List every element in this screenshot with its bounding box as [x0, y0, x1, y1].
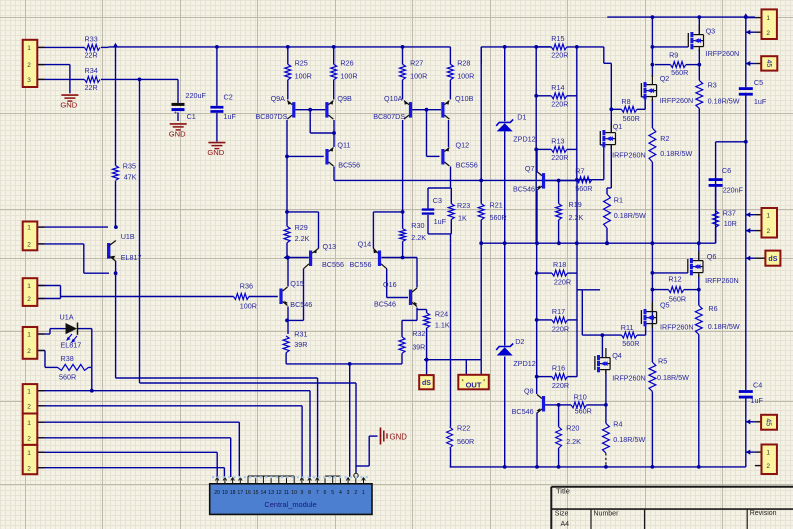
svg-text:R30: R30	[411, 221, 424, 230]
svg-text:Q14: Q14	[358, 240, 372, 249]
svg-text:IRFP260N: IRFP260N	[706, 49, 740, 58]
svg-text:ZPD12: ZPD12	[513, 359, 535, 368]
svg-text:Title: Title	[556, 487, 570, 496]
svg-text:R5: R5	[658, 357, 667, 366]
svg-text:560R: 560R	[575, 407, 592, 416]
svg-text:R4: R4	[613, 419, 622, 428]
svg-text:R36: R36	[240, 282, 253, 291]
svg-text:1.1K: 1.1K	[435, 321, 450, 330]
svg-text:R25: R25	[295, 58, 308, 67]
svg-text:1: 1	[27, 388, 31, 395]
svg-text:R7: R7	[575, 167, 584, 176]
svg-text:U1B: U1B	[121, 232, 135, 241]
svg-text:100R: 100R	[410, 71, 427, 80]
svg-text:1uF: 1uF	[224, 112, 237, 121]
svg-text:560R: 560R	[457, 437, 474, 446]
svg-text:R16: R16	[552, 364, 565, 373]
svg-text:9: 9	[300, 490, 303, 496]
svg-text:R19: R19	[569, 200, 582, 209]
svg-text:Q4: Q4	[612, 351, 622, 360]
svg-text:EL817: EL817	[121, 253, 142, 262]
svg-text:17: 17	[237, 490, 243, 496]
svg-text:dS: dS	[422, 380, 431, 387]
svg-text:10: 10	[291, 490, 297, 496]
svg-text:C4: C4	[753, 381, 762, 390]
svg-text:R37: R37	[723, 209, 736, 218]
svg-text:R3: R3	[708, 81, 717, 90]
svg-text:IRFP260N: IRFP260N	[705, 276, 739, 285]
svg-text:+: +	[174, 110, 177, 116]
svg-text:220R: 220R	[554, 278, 571, 287]
svg-text:EL817: EL817	[61, 341, 82, 350]
svg-text:Q12: Q12	[456, 140, 470, 149]
svg-text:R24: R24	[435, 309, 448, 318]
svg-text:R12: R12	[668, 275, 681, 284]
svg-text:1: 1	[27, 45, 31, 52]
svg-text:1uF: 1uF	[434, 217, 447, 226]
svg-text:Number: Number	[594, 511, 620, 518]
svg-text:Q3: Q3	[706, 27, 716, 36]
svg-text:560R: 560R	[490, 213, 507, 222]
svg-text:220R: 220R	[551, 51, 568, 60]
svg-text:R38: R38	[61, 354, 74, 363]
svg-text:R15: R15	[551, 34, 564, 43]
svg-text:11: 11	[284, 490, 289, 496]
svg-text:GND: GND	[207, 148, 224, 157]
svg-text:Q10A: Q10A	[384, 94, 403, 103]
svg-text:Q8: Q8	[524, 387, 534, 396]
svg-text:BC807DS: BC807DS	[256, 112, 288, 121]
svg-text:BC807DS: BC807DS	[373, 112, 405, 121]
svg-text:BC556: BC556	[338, 161, 360, 170]
svg-text:1K: 1K	[458, 214, 467, 223]
svg-text:560R: 560R	[669, 295, 686, 304]
svg-text:D2: D2	[515, 337, 524, 346]
svg-text:220R: 220R	[552, 324, 569, 333]
svg-text:7: 7	[316, 490, 319, 496]
svg-text:220uF: 220uF	[186, 91, 207, 100]
svg-text:C3: C3	[433, 196, 442, 205]
svg-text:R14: R14	[551, 83, 564, 92]
svg-text:Q5: Q5	[660, 301, 670, 310]
svg-text:0.18R/5W: 0.18R/5W	[708, 322, 740, 331]
svg-text:R23: R23	[457, 201, 470, 210]
svg-text:R34: R34	[85, 66, 98, 75]
svg-text:19: 19	[222, 490, 228, 496]
svg-text:0.18R/5W: 0.18R/5W	[614, 211, 646, 220]
svg-text:100R: 100R	[457, 71, 474, 80]
svg-text:GND: GND	[60, 101, 77, 110]
svg-text:Q13: Q13	[323, 242, 337, 251]
svg-text:Q7: Q7	[525, 164, 535, 173]
svg-text:0.18R/5W: 0.18R/5W	[660, 149, 692, 158]
svg-text:Q15: Q15	[290, 279, 304, 288]
svg-text:8: 8	[308, 490, 311, 496]
svg-text:R26: R26	[340, 58, 353, 67]
svg-text:Q9A: Q9A	[271, 94, 286, 103]
svg-text:100R: 100R	[295, 71, 312, 80]
svg-text:4: 4	[339, 490, 342, 496]
svg-text:220R: 220R	[551, 153, 568, 162]
svg-text:IRFP260N: IRFP260N	[660, 322, 694, 331]
svg-text:2: 2	[27, 62, 31, 69]
svg-text:R6: R6	[708, 304, 717, 313]
svg-text:5: 5	[331, 490, 334, 496]
svg-text:14: 14	[261, 490, 267, 496]
svg-text:R33: R33	[85, 35, 98, 44]
svg-text:2: 2	[27, 348, 31, 355]
svg-text:BC546: BC546	[513, 185, 535, 194]
svg-text:BC556: BC556	[350, 260, 372, 269]
svg-text:Q9B: Q9B	[337, 94, 352, 103]
svg-text:BC556: BC556	[456, 161, 478, 170]
svg-text:22R: 22R	[85, 83, 98, 92]
svg-text:dS: dS	[768, 256, 777, 263]
svg-text:15: 15	[253, 490, 259, 496]
svg-text:1: 1	[27, 332, 31, 339]
svg-text:R29: R29	[295, 223, 308, 232]
svg-text:IRFP260N: IRFP260N	[612, 150, 646, 159]
svg-text:D1: D1	[517, 112, 526, 121]
svg-text:R8: R8	[621, 97, 630, 106]
svg-text:C5: C5	[754, 78, 763, 87]
svg-text:0.18R/5W: 0.18R/5W	[708, 96, 740, 105]
svg-text:2: 2	[766, 228, 770, 235]
svg-text:R31: R31	[294, 330, 307, 339]
svg-text:1uF: 1uF	[751, 396, 764, 405]
svg-text:R9: R9	[669, 51, 678, 60]
svg-text:6: 6	[324, 490, 327, 496]
svg-text:C6: C6	[722, 166, 731, 175]
svg-text:Q2: Q2	[660, 74, 670, 83]
svg-text:R1: R1	[614, 195, 623, 204]
svg-text:C1: C1	[187, 112, 196, 121]
svg-text:IRFP260N: IRFP260N	[660, 96, 694, 105]
svg-text:0.18R/5W: 0.18R/5W	[657, 373, 689, 382]
svg-text:2: 2	[27, 296, 31, 303]
svg-text:2: 2	[766, 30, 770, 37]
svg-text:100R: 100R	[240, 302, 257, 311]
svg-text:Q16: Q16	[383, 280, 397, 289]
svg-text:3: 3	[27, 77, 31, 84]
svg-text:0.18R/5W: 0.18R/5W	[613, 435, 645, 444]
svg-text:10R: 10R	[724, 219, 737, 228]
svg-text:2.2K: 2.2K	[411, 233, 426, 242]
svg-text:Revision: Revision	[750, 510, 777, 517]
svg-text:GND: GND	[390, 432, 408, 441]
svg-text:2: 2	[354, 490, 357, 496]
svg-text:R28: R28	[457, 58, 470, 67]
svg-text:R2: R2	[660, 134, 669, 143]
svg-text:560R: 560R	[623, 114, 640, 123]
svg-text:1: 1	[362, 490, 365, 496]
svg-text:1uF: 1uF	[754, 97, 767, 106]
svg-text:560R: 560R	[671, 68, 688, 77]
svg-text:560R: 560R	[575, 184, 592, 193]
svg-text:220R: 220R	[551, 100, 568, 109]
svg-text:R32: R32	[412, 329, 425, 338]
svg-text:R35: R35	[123, 162, 136, 171]
svg-text:2: 2	[27, 403, 31, 410]
svg-text:2: 2	[27, 465, 31, 472]
svg-text:2.2K: 2.2K	[569, 213, 584, 222]
svg-text:IRFP260N: IRFP260N	[612, 374, 646, 383]
svg-text:220R: 220R	[552, 381, 569, 390]
svg-text:Q10B: Q10B	[455, 94, 474, 103]
svg-text:A4: A4	[561, 521, 570, 528]
svg-text:R13: R13	[551, 137, 564, 146]
svg-text:22R: 22R	[85, 51, 98, 60]
svg-text:1: 1	[27, 450, 31, 457]
svg-text:Size: Size	[555, 511, 569, 518]
svg-text:1: 1	[766, 212, 770, 219]
svg-text:U1A: U1A	[60, 313, 74, 322]
svg-text:20: 20	[214, 490, 220, 496]
svg-text:BC546: BC546	[374, 300, 396, 309]
svg-text:BC556: BC556	[322, 260, 344, 269]
svg-text:R11: R11	[621, 323, 634, 332]
svg-text:560R: 560R	[622, 339, 639, 348]
svg-text:1: 1	[27, 283, 31, 290]
svg-text:16: 16	[245, 490, 251, 496]
svg-text:39R: 39R	[412, 343, 425, 352]
svg-text:1: 1	[766, 450, 770, 457]
svg-text:220nF: 220nF	[723, 185, 744, 194]
svg-text:12: 12	[276, 490, 282, 496]
svg-text:BC546: BC546	[512, 407, 534, 416]
svg-text:45: 45	[765, 418, 772, 426]
svg-text:45: 45	[765, 60, 772, 68]
svg-text:R10: R10	[574, 393, 587, 402]
svg-text:2: 2	[27, 242, 31, 249]
svg-text:R18: R18	[553, 260, 566, 269]
svg-text:2.2K: 2.2K	[295, 234, 310, 243]
svg-text:1: 1	[766, 15, 770, 22]
svg-text:R21: R21	[490, 201, 503, 210]
svg-text:C2: C2	[224, 92, 233, 101]
svg-text:BC546: BC546	[290, 300, 312, 309]
svg-text:47K: 47K	[124, 173, 137, 182]
svg-text:1: 1	[27, 420, 31, 427]
svg-text:1: 1	[27, 225, 31, 232]
svg-text:18: 18	[230, 490, 236, 496]
svg-text:R17: R17	[552, 307, 565, 316]
svg-text:13: 13	[268, 490, 274, 496]
svg-text:2: 2	[27, 435, 31, 442]
svg-text:39R: 39R	[294, 340, 307, 349]
svg-text:Q6: Q6	[707, 252, 717, 261]
svg-text:OUT: OUT	[466, 380, 482, 389]
svg-text:GND: GND	[169, 129, 186, 138]
svg-text:2: 2	[766, 463, 770, 470]
svg-text:ZPD12: ZPD12	[513, 135, 535, 144]
svg-text:Q11: Q11	[337, 140, 350, 149]
svg-text:560R: 560R	[59, 373, 76, 382]
svg-text:3: 3	[347, 490, 350, 496]
svg-text:R27: R27	[410, 58, 423, 67]
svg-text:R20: R20	[566, 424, 579, 433]
svg-text:2.2K: 2.2K	[566, 437, 581, 446]
svg-text:Q1: Q1	[613, 122, 623, 131]
svg-text:Central_module: Central_module	[264, 500, 316, 509]
svg-text:100R: 100R	[340, 71, 357, 80]
svg-text:R22: R22	[457, 424, 470, 433]
